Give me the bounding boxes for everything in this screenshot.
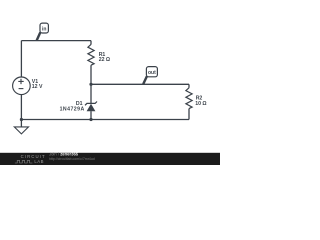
svg-text:LAB: LAB xyxy=(34,159,44,164)
wire top-right corner into R1 xyxy=(90,41,92,45)
wire bottom rail xyxy=(21,119,189,121)
wire D1 anode to bottom rail xyxy=(90,111,92,119)
resistor R2 xyxy=(186,88,192,109)
node flag in xyxy=(37,23,49,40)
watermark bar xyxy=(0,153,220,165)
junction mid node xyxy=(89,83,92,86)
wire middle (out node) xyxy=(91,83,189,85)
wire mid node down to D1 cathode xyxy=(90,84,92,103)
svg-text:in: in xyxy=(42,26,46,32)
junction ground xyxy=(20,118,23,121)
wire left vertical to V1 top xyxy=(20,41,22,78)
wire top (in node) xyxy=(21,40,91,42)
svg-text:http://circuitlab.com/c/7mr4ud: http://circuitlab.com/c/7mr4ud xyxy=(49,157,95,161)
diode D1 zener xyxy=(85,102,97,112)
svg-text:10 Ω: 10 Ω xyxy=(195,101,206,107)
node flag out xyxy=(143,67,157,85)
svg-text:1N4729A: 1N4729A xyxy=(60,107,85,113)
svg-text:12 V: 12 V xyxy=(32,84,43,90)
watermark logo waveform xyxy=(15,161,33,163)
junction bottom D1 xyxy=(89,118,92,121)
wire right corner into R2 xyxy=(188,84,190,88)
wire V1 bottom to ground rail xyxy=(20,95,22,120)
ground xyxy=(14,120,28,134)
wire R2 bottom to bottom rail xyxy=(188,109,190,120)
resistor R1 xyxy=(88,44,94,65)
wire R1 bottom to mid node xyxy=(90,65,92,84)
svg-text:22 Ω: 22 Ω xyxy=(99,57,110,63)
voltage source V1 xyxy=(13,77,31,95)
svg-text:Join / zener365: Join / zener365 xyxy=(49,152,79,157)
svg-text:out: out xyxy=(148,70,156,76)
